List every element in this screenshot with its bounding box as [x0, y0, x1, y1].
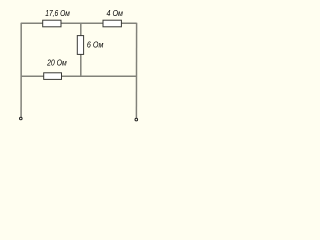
terminal right: [135, 118, 138, 121]
wire left rail: [20, 23, 22, 117]
wire right rail: [135, 23, 137, 118]
resistor R4: [44, 73, 62, 80]
wire middle bus: [21, 75, 137, 77]
wire middle branch: [80, 23, 82, 76]
svg-text:20 Ом: 20 Ом: [46, 58, 67, 67]
resistor R2: [103, 20, 121, 27]
svg-text:6 Ом: 6 Ом: [87, 40, 104, 49]
terminal left: [20, 117, 23, 120]
resistor R3: [77, 36, 83, 55]
resistor R1: [43, 20, 61, 27]
wire top rail: [21, 22, 137, 24]
svg-text:4 Ом: 4 Ом: [107, 9, 124, 18]
svg-text:17,6 Ом: 17,6 Ом: [45, 9, 70, 18]
